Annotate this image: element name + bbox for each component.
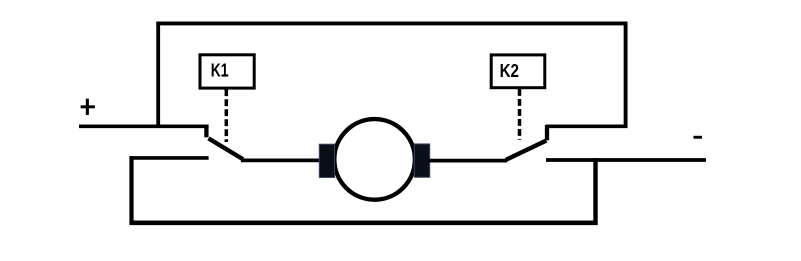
wire: top bus horizontal [156,21,627,25]
node + (positive terminal label) [81,99,95,115]
motor brush left [319,144,334,177]
node - (negative terminal label) [694,136,703,139]
label K1 digit serif [222,74,229,76]
wire: bottom bus horizontal [130,221,598,226]
relay coil K2 [491,55,545,88]
wire: bottom bus left riser [129,156,133,225]
wire: bottom bus right riser [593,158,597,225]
svg-text:K2: K2 [500,61,519,81]
dashed actuation link K2 [518,89,522,140]
K1 movable contact blade [209,138,244,159]
motor M body [334,119,415,200]
wire: top bus left riser [156,23,160,126]
wire: top bus right riser [624,23,628,126]
wire: positive supply lead [79,124,209,128]
wire: motor left lead [241,158,323,162]
dashed actuation link K1 [225,89,229,142]
wire: K1 lower throw lead [130,156,209,160]
wire: K2 fixed-contact lead [546,124,628,128]
relay coil K1 [200,55,254,88]
K2 fixed contact tick [545,125,549,140]
wire: motor right lead [428,159,507,163]
svg-text:K1: K1 [211,61,229,81]
wire: negative supply lead [546,158,706,162]
motor brush right [414,144,429,177]
K1 fixed contact tick [204,125,208,137]
K2 movable contact blade [506,141,547,160]
